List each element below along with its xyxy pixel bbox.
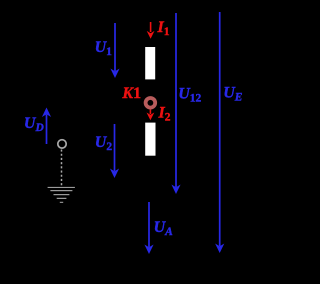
svg-text:K1: K1	[121, 85, 141, 102]
